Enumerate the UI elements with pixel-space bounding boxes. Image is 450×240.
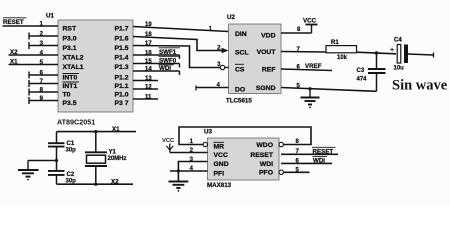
U3 right pin names (250, 142, 274, 176)
stub P1.2 with net label WDI (133, 65, 180, 75)
svg-text:RESET: RESET (3, 19, 24, 26)
svg-text:P1.4: P1.4 (115, 55, 129, 62)
crystal top wire node X1 (57, 126, 137, 133)
svg-text:CS: CS (235, 67, 245, 74)
stub P1.0 pin12 (133, 88, 158, 90)
svg-text:VDD: VDD (261, 33, 275, 40)
svg-text:DIN: DIN (235, 31, 247, 38)
U1 reference designator (46, 13, 54, 20)
svg-text:C3: C3 (357, 68, 365, 74)
net label X1 at XTAL1 (10, 58, 18, 65)
U1 right pin names (115, 26, 129, 108)
svg-text:U3: U3 (204, 129, 212, 136)
stub P1.4 with net label SWF1 (133, 48, 180, 59)
capacitor C2 30p (48, 171, 76, 185)
U2 pin numbers right 8,7,6,5 (297, 27, 302, 89)
svg-text:P1.0: P1.0 (115, 92, 129, 99)
crystal Y1 20MHz (85, 132, 127, 185)
svg-text:Y1: Y1 (109, 150, 117, 156)
U2 SCL input arrow (222, 48, 229, 54)
wire WDO to MR feedback loop (179, 127, 311, 145)
svg-text:P3.0: P3.0 (63, 36, 77, 43)
U3 reference designator (204, 129, 212, 136)
svg-text:P1.3: P1.3 (115, 64, 129, 71)
svg-text:SWF1: SWF1 (159, 49, 177, 56)
svg-text:X2: X2 (111, 179, 119, 186)
svg-text:WDI: WDI (260, 161, 273, 168)
U2 CS bubble (220, 65, 228, 69)
wire to ground between C1 and C2 (28, 159, 58, 170)
svg-text:PFO: PFO (259, 170, 273, 177)
svg-text:X1: X1 (10, 58, 18, 65)
U3 part label MAX813 (207, 182, 232, 189)
ground symbol at crystal (18, 170, 39, 180)
svg-text:SGND: SGND (256, 85, 276, 92)
IC U1 body AT89C2051 (58, 20, 133, 112)
U2 DO stub pin 4 (196, 86, 229, 91)
polarized capacitor C4 10u (390, 38, 408, 72)
U3 PFO bubble (279, 170, 283, 174)
svg-text:C1: C1 (67, 141, 75, 147)
U3 WDI input with net label WDI (281, 156, 332, 164)
svg-text:10u: 10u (394, 66, 405, 72)
IC U3 body MAX813 (208, 138, 280, 180)
svg-text:X1: X1 (112, 126, 120, 133)
svg-text:C4: C4 (394, 38, 402, 44)
U3 WDO bubble (279, 142, 283, 146)
svg-text:U1: U1 (46, 13, 54, 20)
svg-text:474: 474 (357, 77, 368, 83)
svg-text:PFI: PFI (214, 170, 225, 177)
U1 left pin wires pins 1-9 (3, 26, 59, 104)
resistor R1 (326, 40, 357, 61)
ground symbol at U2 SGND (301, 89, 320, 109)
wire R1 to C4 with junction node (357, 51, 397, 54)
U3 MR bubble (203, 142, 207, 146)
IC U2 body TLC5615 (229, 24, 282, 94)
svg-text:RESET: RESET (250, 152, 274, 159)
svg-text:WDI: WDI (313, 157, 325, 164)
U3 RESET output with net label RESET (281, 147, 338, 155)
U3 pin numbers right 8,7,6,5 (296, 139, 300, 173)
U1 left pin names (63, 26, 84, 108)
output wire Sin wave (408, 53, 434, 58)
svg-text:SCL: SCL (235, 50, 249, 57)
svg-text:MAX813: MAX813 (207, 182, 232, 189)
net label X2 at XTAL2 (10, 49, 18, 56)
capacitor C3 474 (357, 53, 386, 91)
svg-text:XTAL2: XTAL2 (63, 55, 84, 62)
U1 left pin numbers 1-9 (40, 22, 44, 103)
VCC power arrow at U3 VCC pin 2 (162, 138, 208, 153)
svg-text:C2: C2 (67, 172, 75, 178)
svg-text:TLC5615: TLC5615 (226, 98, 252, 105)
svg-text:+: + (390, 47, 394, 54)
svg-text:10k: 10k (337, 55, 348, 61)
wire P1.7 pin19 to U2 DIN pin1 (133, 27, 229, 32)
svg-text:AT89C2051: AT89C2051 (57, 118, 95, 127)
VCC power symbol at U2 VDD pin 8 (281, 18, 318, 34)
stub P1.3 with net label SWF0 (133, 56, 180, 67)
svg-text:P3.1: P3.1 (63, 45, 77, 52)
svg-text:MR: MR (214, 144, 225, 151)
svg-text:VREF: VREF (305, 63, 322, 70)
label Sin wave (392, 78, 448, 94)
U2 pin numbers left 1-4 (209, 27, 222, 89)
svg-text:20MHz: 20MHz (108, 156, 127, 162)
svg-text:WDI: WDI (159, 65, 171, 72)
svg-text:P1.2: P1.2 (115, 75, 129, 82)
svg-text:30p: 30p (66, 148, 77, 154)
svg-text:SWF0: SWF0 (159, 58, 177, 65)
svg-text:RST: RST (63, 26, 77, 33)
U2 reference designator (227, 14, 235, 21)
wire U2 VOUT pin7 to resistor R1 (281, 51, 326, 54)
ground symbol at U3 (169, 182, 189, 192)
svg-text:VCC: VCC (162, 138, 175, 144)
U2 right pin names (256, 33, 276, 93)
REF stub with net label VREF (281, 63, 332, 71)
svg-text:U2: U2 (227, 14, 235, 21)
svg-text:P3 7: P3 7 (115, 100, 129, 107)
wire P1.5 pin17 to U2 CS pin3 (133, 46, 220, 68)
svg-text:P1.1: P1.1 (115, 83, 129, 90)
svg-text:T0: T0 (63, 92, 71, 99)
svg-text:WDO: WDO (256, 142, 273, 149)
wire U2 SGND pin5 to C3 bottom (281, 87, 377, 91)
U3 pin numbers left 1-4 (190, 139, 194, 172)
U3 PFO stub pin 5 (283, 171, 309, 173)
svg-text:RESET: RESET (313, 148, 334, 155)
svg-text:P1.6: P1.6 (115, 36, 129, 43)
U1 right pin numbers 19-11 (145, 22, 152, 101)
wire P1.6 pin18 to U2 SCL pin2 (133, 37, 222, 51)
U2 part label TLC5615 (226, 98, 252, 105)
svg-text:INT0: INT0 (63, 75, 78, 82)
svg-text:P1.5: P1.5 (115, 45, 129, 52)
svg-text:INT1: INT1 (63, 83, 78, 90)
U2 left pin names (235, 31, 249, 94)
svg-text:VCC: VCC (303, 18, 317, 25)
svg-text:REF: REF (262, 67, 276, 74)
net label RESET at U1 pin 1 (3, 18, 27, 26)
U1 part label AT89C2051 (57, 118, 95, 127)
wire U3 PFI pin4 (170, 169, 208, 172)
svg-text:P1.7: P1.7 (115, 26, 129, 33)
wire U3 GND pin3 to ground (178, 162, 207, 182)
svg-text:Sin wave: Sin wave (392, 78, 448, 94)
svg-text:VOUT: VOUT (257, 49, 277, 56)
svg-text:GND: GND (214, 161, 229, 168)
svg-text:XTAL1: XTAL1 (63, 64, 84, 71)
svg-text:R1: R1 (331, 40, 339, 46)
svg-text:X2: X2 (10, 49, 18, 56)
stub P1.1 pin13 (133, 80, 158, 82)
U3 left pin names (214, 142, 229, 177)
capacitor C1 30p (48, 132, 76, 171)
stub P3.7 pin11 (133, 98, 158, 100)
svg-text:P3.5: P3.5 (63, 100, 77, 107)
svg-text:DO: DO (235, 87, 245, 94)
crystal bottom wire node X2 (57, 179, 134, 186)
svg-text:VCC: VCC (214, 152, 228, 159)
